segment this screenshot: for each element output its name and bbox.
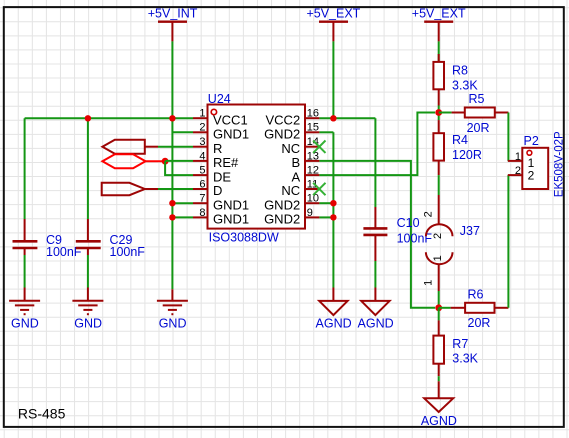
power +5V_INT flag	[158, 22, 187, 42]
hierarchical port RE# (bidi arrow, highlighted)	[102, 154, 145, 168]
resistor R4	[433, 120, 444, 175]
svg-text:R4: R4	[452, 133, 468, 147]
svg-text:12: 12	[307, 165, 319, 177]
svg-text:1: 1	[515, 151, 521, 163]
wire pin2 GND1	[172, 131, 193, 133]
wire D stub	[145, 188, 158, 190]
svg-text:GND2: GND2	[264, 212, 300, 227]
svg-text:GND: GND	[159, 316, 187, 330]
capacitor C10	[363, 207, 387, 261]
wire C29 top drop	[87, 118, 89, 219]
svg-text:1: 1	[432, 255, 444, 261]
resistor R7	[433, 308, 444, 376]
P2 pin 2 stub	[508, 174, 523, 176]
hierarchical port R (input arrow)	[102, 140, 144, 154]
svg-text:20R: 20R	[468, 316, 491, 330]
svg-text:J37: J37	[460, 224, 480, 238]
svg-text:GND1: GND1	[213, 197, 249, 212]
no-connect X pin 11	[313, 183, 325, 195]
ground AGND (left)	[319, 288, 347, 316]
power +5V_EXT flag (right)	[424, 22, 453, 42]
U24 right pin numbers	[307, 108, 319, 219]
svg-text:3.3K: 3.3K	[452, 78, 478, 92]
resistor R8	[433, 41, 444, 105]
svg-text:14: 14	[307, 136, 319, 148]
svg-text:R5: R5	[469, 92, 485, 106]
svg-text:P2: P2	[524, 134, 539, 148]
junction pin7	[169, 200, 175, 206]
wire RE# to pin4	[165, 160, 193, 162]
junction node J37/R6/R7/B	[435, 304, 442, 311]
svg-text:2: 2	[528, 169, 535, 183]
svg-text:AGND: AGND	[358, 317, 394, 331]
svg-text:U24: U24	[208, 92, 231, 106]
U24 left pin names	[213, 112, 249, 226]
ground AGND (bottom)	[424, 381, 453, 412]
svg-text:GND1: GND1	[213, 127, 249, 142]
svg-text:8: 8	[199, 207, 205, 219]
svg-text:5: 5	[199, 165, 205, 177]
svg-text:2: 2	[432, 233, 444, 239]
wire pin8 GND1	[172, 216, 193, 218]
wire GND2 rail	[332, 132, 334, 287]
ground GND (under C9)	[9, 288, 40, 315]
junction RE#/DE	[162, 158, 169, 165]
svg-text:A: A	[292, 169, 301, 184]
svg-text:9: 9	[307, 207, 313, 219]
svg-text:+5V_EXT: +5V_EXT	[412, 7, 466, 21]
wire VCC1 horizontal rail	[25, 117, 193, 119]
svg-text:20R: 20R	[467, 121, 490, 135]
wire C9 top drop	[24, 118, 26, 219]
svg-text:2: 2	[423, 211, 435, 217]
wire net B	[319, 161, 435, 308]
wire D to pin6	[158, 188, 193, 190]
wire C29 to GND	[87, 255, 89, 288]
no-connect X pin 14	[313, 141, 325, 153]
wire C10 drop	[374, 118, 376, 207]
svg-text:GND: GND	[74, 316, 102, 330]
svg-text:R6: R6	[468, 288, 484, 302]
svg-text:R: R	[213, 141, 222, 156]
U24 right pin stubs	[305, 118, 319, 217]
svg-text:D: D	[213, 183, 222, 198]
svg-text:VCC1: VCC1	[213, 112, 248, 127]
svg-text:DE: DE	[213, 169, 231, 184]
svg-text:AGND: AGND	[316, 317, 352, 331]
junction VCC2	[330, 115, 336, 121]
svg-text:VCC2: VCC2	[266, 112, 301, 127]
svg-text:6: 6	[199, 178, 205, 190]
power +5V_EXT flag (left)	[319, 22, 348, 42]
svg-text:C10: C10	[397, 216, 420, 230]
svg-text:11: 11	[307, 178, 318, 190]
svg-text:GND2: GND2	[264, 127, 300, 142]
wire DE drop	[165, 161, 193, 175]
ground AGND (right)	[361, 288, 389, 316]
wire pin15	[319, 131, 333, 133]
spark gap J37	[426, 195, 453, 291]
ground GND (under C29)	[72, 288, 103, 315]
svg-text:1: 1	[423, 280, 435, 286]
wire +5V_EXT drop	[332, 41, 334, 118]
wire net A	[319, 113, 435, 176]
svg-text:15: 15	[307, 122, 319, 134]
svg-text:120R: 120R	[452, 148, 482, 162]
wire VCC2 row	[319, 117, 375, 119]
wire R7 to AGND	[438, 376, 440, 381]
svg-text:7: 7	[199, 193, 205, 205]
wire R stub	[145, 146, 158, 148]
capacitor C29	[76, 219, 101, 255]
P2 pin1 indicator circle	[527, 150, 532, 155]
svg-text:GND1: GND1	[213, 212, 249, 227]
svg-text:16: 16	[307, 108, 319, 120]
wire R4 to J37	[438, 175, 440, 195]
svg-text:1: 1	[199, 108, 205, 120]
junction C29/VCC1	[85, 115, 91, 121]
junction pin10	[330, 200, 336, 206]
U24 right pin names	[264, 112, 300, 226]
wire pin10	[319, 202, 333, 204]
svg-text:B: B	[292, 155, 301, 170]
wire +5V_INT vertical / GND1 rail	[171, 41, 173, 289]
wire R5 to P2 pin1	[507, 113, 509, 161]
wire R8 to node	[438, 106, 440, 121]
junction node R8/R4/R5/A	[435, 109, 442, 116]
pin 1 indicator circle	[211, 109, 216, 114]
svg-text:3.3K: 3.3K	[452, 352, 478, 366]
svg-text:EK508V-02P: EK508V-02P	[553, 131, 565, 197]
junction pin8	[169, 214, 175, 220]
svg-text:ISO3088DW: ISO3088DW	[209, 230, 279, 244]
svg-text:R7: R7	[452, 337, 468, 351]
svg-text:NC: NC	[281, 183, 300, 198]
svg-text:AGND: AGND	[421, 414, 457, 428]
connector P2	[522, 148, 548, 189]
U24 left pin numbers	[199, 108, 205, 219]
svg-text:2: 2	[515, 165, 521, 177]
wire R6 to P2 pin2	[507, 175, 509, 308]
wire J37 to node	[438, 291, 440, 308]
ground GND (under IC rail)	[157, 289, 188, 314]
junction +5V_INT/VCC1	[169, 115, 175, 121]
U24 left pin stubs	[193, 118, 208, 217]
svg-text:RS-485: RS-485	[18, 405, 66, 421]
wire R to pin3	[158, 146, 193, 148]
svg-text:GND: GND	[11, 316, 39, 330]
svg-text:100nF: 100nF	[110, 245, 146, 259]
resistor R5	[439, 108, 509, 118]
resistor R6	[439, 303, 509, 313]
wire C9 to GND	[24, 255, 26, 288]
wire RE# red	[146, 160, 166, 162]
wire C10 to AGND	[374, 261, 376, 288]
P2 pin 1 stub	[508, 160, 523, 162]
svg-text:NC: NC	[281, 141, 300, 156]
hierarchical port D (output arrow)	[102, 183, 145, 195]
junction pin9	[330, 214, 336, 220]
svg-text:RE#: RE#	[213, 155, 239, 170]
svg-text:2: 2	[199, 122, 205, 134]
svg-text:R8: R8	[452, 64, 468, 78]
svg-text:3: 3	[199, 136, 205, 148]
svg-text:+5V_EXT: +5V_EXT	[306, 7, 360, 21]
svg-text:4: 4	[199, 150, 205, 162]
capacitor C9	[13, 219, 38, 255]
svg-text:+5V_INT: +5V_INT	[148, 7, 198, 21]
svg-text:GND2: GND2	[264, 197, 300, 212]
wire pin9	[319, 216, 333, 218]
op-amp U24 body	[208, 105, 306, 229]
wire pin7 GND1	[172, 202, 193, 204]
